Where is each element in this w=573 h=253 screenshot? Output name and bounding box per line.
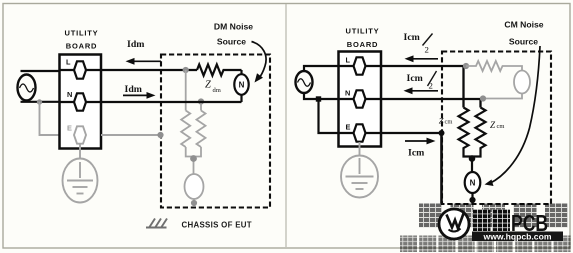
curved arrow DM [252,42,267,80]
wire N back to board [101,101,242,103]
label UTILITY BOARD (right) [346,27,380,50]
DM noise source dashed enclosure [161,55,270,208]
svg-text:cm: cm [497,123,505,130]
wire L source to board [304,66,339,72]
svg-text:2: 2 [429,81,433,91]
svg-text:Z: Z [439,116,444,126]
current arrow Icm on E (right-pointing) [405,138,436,145]
wire to noise circle [240,70,242,75]
resistor Zcm2 (black vertical) [476,108,486,153]
wire L board to CM box [381,66,464,108]
svg-text:N: N [470,179,476,188]
node E at chassis edge (gray) [157,132,163,138]
wire gray from N down [200,102,202,111]
svg-text:L: L [66,58,71,67]
ghost node on N (gray) [480,95,486,101]
resistor Zcm1 (black vertical) [459,108,469,153]
wire E to ground (gray) [359,142,361,156]
AC source V1 [18,75,36,101]
wire N from source to board [21,101,60,103]
label DM Noise Source [214,22,253,47]
svg-text:E: E [67,124,72,133]
CM noise source dashed enclosure [442,52,551,205]
terminal L (left board) [74,61,86,78]
current arrow Icm/2 on L [405,55,439,62]
watermark brand blocks + PCB [473,210,491,232]
resistor ghost Zcm-a (gray vertical) [181,111,190,148]
svg-text:E: E [346,123,351,132]
svg-text:L: L [346,56,351,65]
curved arrow CM [490,46,540,183]
svg-text:dm: dm [213,87,221,94]
wire L board to DM box [101,69,197,71]
label UTILITY BOARD (left) [65,29,99,51]
svg-text:Z: Z [490,120,496,130]
node on N line for Zcm path (gray) [198,98,204,104]
terminal N (left board) [74,93,86,110]
wire from circle to N line [240,94,242,102]
svg-text:BOARD: BOARD [66,42,98,51]
current arrow Idm right [123,92,156,99]
svg-text:Icm: Icm [404,32,420,43]
wire E drop to chassis [440,133,443,204]
wire earth tap (black) [319,99,339,133]
wires inside board [339,66,382,133]
terminal E (right board) [354,124,366,141]
wire E to ground (gray) [79,145,81,159]
noise source circle N (left) [234,74,248,95]
svg-text:CM Noise: CM Noise [504,20,543,30]
node E drop [439,130,445,136]
watermark logo circle [439,209,469,239]
svg-text:Idm: Idm [127,39,144,50]
wire L inside board [60,69,102,71]
current arrow Idm left [126,58,162,65]
label CM Noise Source [504,20,543,47]
svg-text:Idm: Idm [125,84,142,95]
watermark url bar [472,232,563,242]
svg-text:UTILITY: UTILITY [65,29,99,38]
current arrow Icm/2 on N [404,87,439,94]
chassis hatch symbol [146,219,167,228]
panel divider [285,4,287,247]
svg-text:www.hqpcb.com: www.hqpcb.com [483,232,552,242]
ghost resistor Zdm (gray horizontal) [466,61,522,71]
ghost return wire (gray) [483,94,522,99]
wire to chassis with node [471,193,473,204]
wire gray from L down [185,70,187,111]
fraction /2 top [423,34,433,46]
gray lead to chassis [193,199,195,206]
svg-text:N: N [345,89,350,98]
svg-text:Z: Z [205,80,211,91]
noise source circle N (right) [465,172,481,193]
wire N board into CM box [381,99,481,108]
terminal L (right board) [354,57,366,74]
wire E board to CM box [381,132,441,134]
svg-text:N: N [67,90,72,99]
watermark gray row2 char blocks [400,236,571,253]
svg-text:Source: Source [509,37,538,47]
resistor ghost Zcm-b (gray vertical) [197,111,206,148]
svg-text:CHASSIS OF EUT: CHASSIS OF EUT [182,221,252,230]
wire N source to board [304,93,339,100]
svg-text:cm: cm [445,119,453,126]
node on N wire (gray junction) [37,99,42,104]
svg-text:Icm: Icm [407,73,423,84]
ghost node on L (gray) [463,63,469,69]
ghost source circle (gray) [514,71,530,94]
ground electrode symbol (right) [341,156,378,198]
svg-text:Icm: Icm [408,148,424,159]
node square on N wire [316,96,321,101]
ghost source circle (gray) [185,174,204,199]
ground electrode symbol (left) [63,159,98,203]
wire L from source to board [21,70,60,72]
resistor Zdm (black horizontal) [197,65,242,76]
utility board box (left) [60,55,102,149]
wire N inside board [60,101,102,103]
gray junction dot [190,155,197,162]
node on L line for Zcm path (gray) [183,67,189,73]
wire E gray to chassis box [101,134,159,136]
terminal E (left board, gray) [74,126,86,143]
watermark gray row1 char blocks [419,204,568,228]
svg-text:UTILITY: UTILITY [346,27,380,36]
svg-text:BOARD: BOARD [347,40,379,49]
fraction /2 middle [428,71,437,86]
junction dot [469,155,476,162]
joining bar [464,153,481,175]
svg-text:Source: Source [217,37,246,47]
terminal N (right board) [354,90,366,107]
svg-text:DM Noise: DM Noise [214,22,253,32]
wire earth tap (gray) [40,102,74,135]
svg-text:2: 2 [425,45,429,55]
gray joining bar [186,147,201,175]
utility board box (right) [339,52,382,147]
svg-text:N: N [239,81,245,90]
AC source V2 [296,71,313,93]
